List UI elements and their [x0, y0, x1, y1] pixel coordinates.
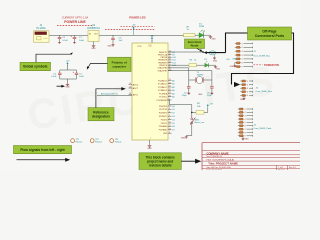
svg-text:PD6/AIN0: PD6/AIN0: [159, 125, 167, 128]
annotation frame off-page: [226, 33, 294, 85]
arrow flow direction: [17, 159, 67, 161]
callout Junction/Node: [185, 39, 205, 49]
connector J3: [242, 80, 245, 82]
svg-text:11: 11: [169, 122, 171, 124]
svg-text:revision details: revision details: [149, 163, 172, 167]
svg-text:D0: D0: [172, 106, 174, 108]
capacitor C1: [74, 35, 76, 37]
svg-text:10: 10: [169, 69, 171, 71]
net label Atmega/ICSP+5V: [97, 95, 132, 97]
svg-text:GND: GND: [213, 61, 218, 63]
svg-text:Date: 04-05-2021: Date: 04-05-2021: [207, 168, 223, 170]
svg-text:D3: D3: [172, 116, 174, 118]
svg-text:Atmega/ICSP+5v: Atmega/ICSP+5v: [101, 92, 119, 95]
switch SW1: [191, 118, 193, 120]
svg-text:GND: GND: [91, 48, 96, 50]
svg-text:A1: A1: [172, 83, 174, 86]
svg-text:2: 2: [169, 105, 170, 107]
svg-text:designators: designators: [92, 114, 110, 118]
svg-text:22: 22: [129, 87, 131, 89]
IC right pins group PD: [168, 105, 172, 107]
LED D2: [197, 64, 205, 66]
IC right pins group PB: [168, 51, 172, 53]
connector J1 barrel jack: [34, 31, 50, 42]
ground below SW1: [191, 124, 193, 136]
arrow to junction: [206, 52, 226, 54]
title block frame: [202, 142, 300, 144]
svg-text:Flow signals from left - right: Flow signals from left - right: [20, 148, 65, 152]
svg-text:Global symbols: Global symbols: [23, 65, 48, 69]
svg-text:1uF: 1uF: [119, 40, 123, 42]
op-amp U2 ATMEGA328P body: [132, 43, 168, 140]
svg-text:D2: D2: [172, 113, 174, 115]
svg-text:+5V: +5V: [66, 60, 70, 62]
svg-text:GND: GND: [163, 133, 168, 135]
svg-text:Com_IN-BL_Bus: Com_IN-BL_Bus: [256, 91, 273, 93]
svg-text:Com_IN-BX_Pads: Com_IN-BX_Pads: [254, 128, 273, 130]
svg-text:PD2/INT0: PD2/INT0: [159, 113, 167, 115]
LED D1: [195, 34, 199, 36]
node +5V on rail: [99, 34, 184, 36]
node +5V left: [66, 62, 68, 64]
svg-text:PD7/AIN1: PD7/AIN1: [159, 129, 167, 132]
svg-text:+5V: +5V: [209, 104, 213, 106]
svg-text:22pF: 22pF: [182, 95, 187, 97]
ground below U1: [93, 42, 95, 45]
ground after LED: [204, 34, 211, 36]
svg-text:A0: A0: [172, 79, 174, 82]
test point TP2: [90, 139, 94, 143]
svg-text:Connectors/ Ports: Connectors/ Ports: [255, 34, 285, 38]
svg-text:PC3/ADC3: PC3/ADC3: [158, 89, 167, 92]
svg-text:GND: GND: [181, 137, 186, 139]
wire XTAL2: [168, 70, 212, 72]
svg-text:GND: GND: [147, 148, 152, 150]
svg-text:Euro_ELER_Bus: Euro_ELER_Bus: [254, 55, 271, 58]
junction R2: [191, 112, 193, 114]
svg-text:D1: D1: [172, 109, 174, 111]
svg-text:SW1: SW1: [195, 119, 201, 121]
svg-text:PD3/INT1: PD3/INT1: [159, 116, 167, 118]
svg-text:GND: GND: [216, 68, 221, 70]
svg-text:PC6/RESET: PC6/RESET: [157, 100, 168, 102]
test point TP1: [71, 139, 75, 143]
wire to junction: [168, 51, 203, 53]
svg-text:LM7805-5.0: LM7805-5.0: [87, 27, 100, 30]
svg-text:GND: GND: [107, 46, 112, 48]
svg-text:22pF: 22pF: [207, 95, 212, 97]
svg-text:27: 27: [169, 92, 171, 94]
svg-text:capacitor: capacitor: [112, 64, 127, 68]
resistor R2: [192, 111, 196, 113]
svg-text:D6: D6: [172, 126, 174, 128]
svg-text:10uF: 10uF: [79, 76, 84, 78]
junction dot: [202, 51, 204, 53]
IC left pins: [129, 84, 133, 86]
arrow to title block: [181, 160, 196, 162]
svg-text:AVCC: AVCC: [133, 93, 139, 96]
svg-text:POWER PIN: POWER PIN: [264, 63, 279, 67]
wire: [49, 34, 88, 36]
svg-text:A3: A3: [172, 89, 174, 92]
svg-text:8: 8: [169, 132, 170, 134]
svg-text:0.1uF: 0.1uF: [51, 76, 57, 78]
capacitor C2: [59, 35, 61, 37]
svg-text:PD1/TXD: PD1/TXD: [159, 109, 168, 111]
regulator U1: [88, 31, 99, 42]
callout title block: [139, 153, 181, 170]
resistor R1: [184, 34, 196, 37]
capacitor C5b: [76, 70, 78, 73]
svg-text:+5V: +5V: [132, 25, 136, 27]
svg-text:5: 5: [169, 115, 170, 117]
svg-text:PD0/RXD: PD0/RXD: [159, 106, 168, 108]
arrow to ground symbol: [57, 85, 63, 87]
svg-text:Rev 1.0: Rev 1.0: [289, 167, 297, 169]
arrow to connector J3: [234, 82, 240, 87]
svg-text:Node: Node: [191, 44, 199, 48]
leader polarity: [88, 64, 108, 68]
svg-text:PJ-202A: PJ-202A: [36, 27, 46, 30]
ground at J2: [235, 62, 237, 64]
annotation dashed power rail: [121, 25, 155, 27]
svg-text:GND: GND: [245, 139, 250, 141]
IC right pins group PC: [168, 80, 172, 82]
svg-text:ADC7: ADC7: [133, 87, 139, 90]
capacitor C4: [59, 70, 61, 73]
svg-text:A5: A5: [172, 96, 174, 99]
ground below caps: [60, 78, 77, 80]
svg-text:25: 25: [169, 86, 171, 88]
svg-text:4: 4: [169, 112, 170, 114]
svg-text:POWER LINE: POWER LINE: [64, 20, 86, 24]
+5V above U2: [151, 37, 153, 39]
svg-text:A4: A4: [172, 92, 174, 95]
svg-text:Fiducial: Fiducial: [115, 142, 122, 144]
svg-text:D7: D7: [172, 130, 174, 132]
svg-text:PD4/T0: PD4/T0: [161, 119, 167, 121]
svg-text:23: 23: [169, 79, 171, 81]
port bubble C?: [209, 51, 216, 55]
arrow junction: [197, 49, 201, 51]
callout Polarity of capacitor: [108, 57, 132, 71]
svg-text:PC0/ADC0: PC0/ADC0: [158, 79, 167, 82]
annotation POWER PIN: [254, 64, 263, 66]
svg-text:D5: D5: [172, 123, 174, 125]
svg-text:PC5/SCL: PC5/SCL: [159, 97, 167, 99]
IC bottom ground: [149, 140, 151, 144]
svg-text:28: 28: [169, 95, 171, 97]
svg-text:Ver: PCB-PRJ-01: Ver: PCB-PRJ-01: [207, 156, 223, 158]
wire RESET: [167, 100, 192, 118]
svg-text:A2: A2: [172, 86, 174, 89]
+5V at R2: [204, 111, 208, 113]
svg-text:Reset_sw: Reset_sw: [195, 121, 205, 124]
svg-text:Fiducial: Fiducial: [76, 142, 83, 144]
svg-text:+5V: +5V: [150, 35, 154, 37]
connector J2: [237, 43, 240, 45]
capacitor C5: [187, 86, 191, 88]
svg-text:PD5/T1: PD5/T1: [161, 123, 167, 125]
svg-text:24: 24: [169, 82, 171, 84]
wire XTAL1: [168, 67, 189, 69]
svg-text:GND: GND: [240, 99, 245, 101]
connector J4: [240, 108, 243, 110]
svg-text:19: 19: [129, 83, 131, 85]
svg-text:PC1/ADC1: PC1/ADC1: [158, 83, 167, 86]
svg-text:D4: D4: [172, 119, 174, 121]
svg-text:7: 7: [150, 138, 151, 140]
capacitor C6: [210, 86, 214, 88]
callout Reference designators: [88, 108, 114, 121]
svg-text:PWR: PWR: [199, 26, 205, 28]
ground after D2: [208, 64, 215, 66]
svg-text:Fiducial: Fiducial: [95, 142, 102, 144]
svg-text:XTAL2/PB7: XTAL2/PB7: [157, 69, 167, 72]
callout Off-Page Connectors/Ports: [248, 27, 292, 40]
svg-text:12: 12: [169, 125, 171, 127]
svg-text:COMPANY NAME: COMPANY NAME: [207, 151, 229, 155]
svg-text:POWER LED: POWER LED: [129, 15, 145, 19]
svg-text:6: 6: [169, 118, 170, 120]
svg-text:GND: GND: [65, 87, 70, 89]
svg-text:ADC6: ADC6: [133, 83, 139, 86]
test point TP3: [110, 139, 114, 143]
resistor R3: [168, 64, 189, 66]
svg-text:13: 13: [169, 129, 171, 131]
svg-text:GND: GND: [198, 94, 203, 96]
callout Flow signals: [14, 146, 72, 154]
svg-text:0.1uF: 0.1uF: [62, 40, 68, 42]
svg-text:PB1/OC1A: PB1/OC1A: [158, 53, 168, 56]
capacitor C3: [112, 35, 114, 38]
svg-text:GND: GND: [211, 39, 216, 41]
svg-text:XTAL1/PB6: XTAL1/PB6: [157, 67, 167, 70]
leader reference: [96, 89, 122, 108]
callout Global symbols: [20, 62, 51, 70]
ground at J4: [242, 136, 244, 138]
svg-text:10uF: 10uF: [79, 40, 85, 42]
svg-text:Title: PROJECT NAME: Title: PROJECT NAME: [208, 162, 238, 166]
svg-text:3: 3: [169, 108, 170, 110]
svg-text:Sheet 1: Sheet 1: [278, 168, 286, 170]
ground at J3: [243, 96, 245, 97]
svg-text:GND: GND: [230, 66, 235, 68]
svg-text:PC2/ADC2: PC2/ADC2: [158, 86, 167, 89]
svg-text:20: 20: [129, 93, 131, 95]
svg-text:26: 26: [169, 89, 171, 91]
svg-text:PC4/SDA: PC4/SDA: [159, 92, 168, 95]
leader to GND: [36, 54, 72, 62]
